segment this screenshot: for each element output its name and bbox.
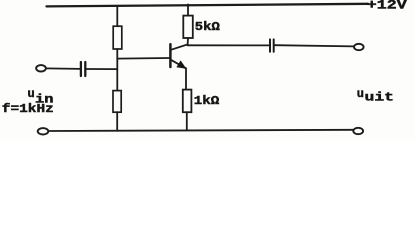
transistor Q1 emitter arrow (176, 60, 186, 68)
wire bottom rail (49, 130, 353, 131)
wire C2 to output terminal (275, 45, 354, 46)
wire rail to R1 (116, 6, 118, 27)
terminal input (open circle) (36, 65, 46, 71)
transistor Q1 collector lead (171, 44, 188, 49)
wire emitter to R4 (185, 68, 187, 89)
wire C1 to base node (86, 68, 117, 70)
capacitor C2 (output coupling) (269, 39, 271, 51)
svg-text:uit: uit (365, 92, 395, 105)
svg-text:f=1kHz: f=1kHz (2, 102, 54, 116)
resistor R4 emitter 1k (183, 90, 192, 113)
resistor R1 (upper bias divider) (113, 26, 122, 49)
svg-text:1kΩ: 1kΩ (194, 94, 220, 108)
svg-text:5kΩ: 5kΩ (195, 20, 220, 34)
wire R2 to bottom rail (116, 112, 118, 131)
resistor R2 (lower bias divider) (113, 91, 121, 113)
wire top supply rail (47, 4, 369, 7)
terminal bottom-right (open circle) (353, 128, 363, 134)
terminal bottom-left (open circle) (38, 128, 49, 134)
svg-text:+12V: +12V (367, 0, 408, 13)
wire rail to R3 (187, 4, 189, 15)
terminal output (open circle) (354, 44, 364, 50)
svg-text:u: u (28, 87, 35, 101)
wire input terminal to C1 (46, 67, 80, 70)
transistor Q1 base bar (169, 44, 172, 67)
wire base (node to transistor) (117, 57, 169, 60)
wire R3 to collector node (187, 38, 189, 45)
svg-text:u: u (357, 87, 364, 101)
wire R4 to bottom rail (186, 112, 188, 130)
transistor Q1 emitter lead (171, 60, 186, 68)
capacitor C1 (input coupling) (80, 62, 82, 76)
resistor R3 collector 5k (183, 16, 193, 38)
wire collector node to C2 (188, 44, 269, 46)
wire R1 to R2 (base node vertical) (116, 49, 118, 91)
